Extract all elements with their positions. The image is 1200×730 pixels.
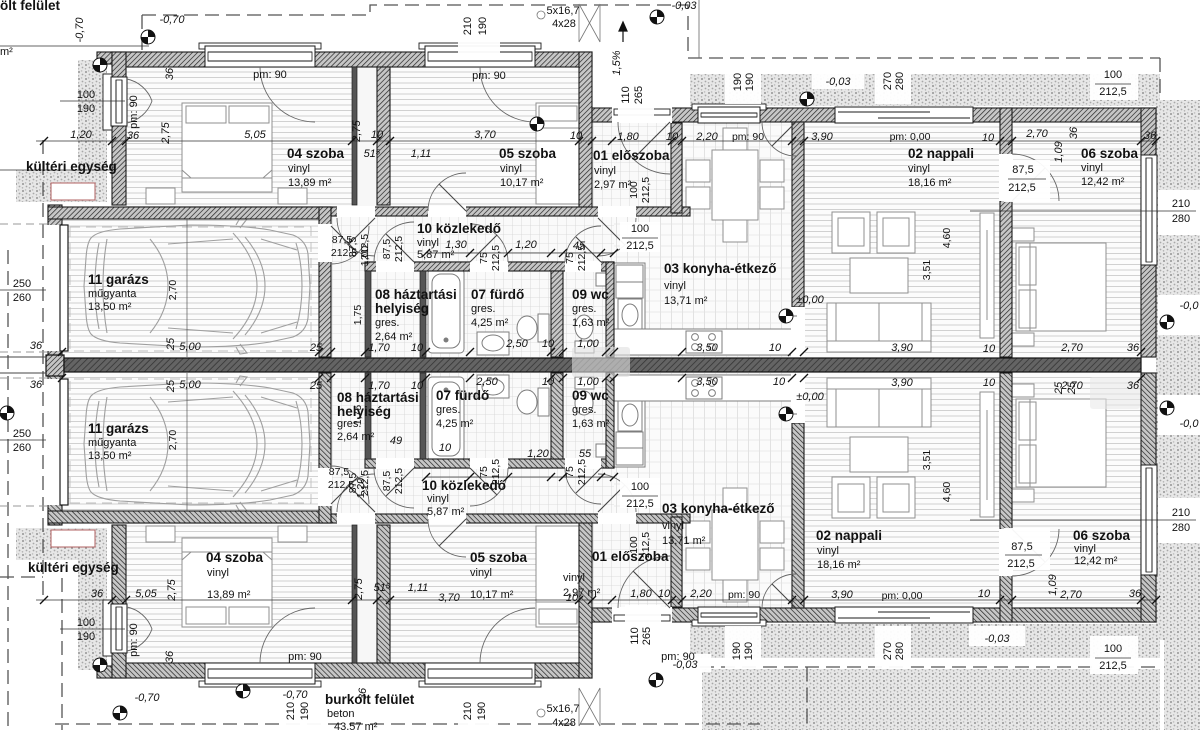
ticks near band lower <box>58 374 1145 382</box>
room 06 floor <box>1012 122 1141 357</box>
svg-text:190: 190 <box>299 702 311 720</box>
svg-text:pm: 90: pm: 90 <box>253 69 287 81</box>
wall right outer wall <box>1141 108 1156 357</box>
slope arrow 1.5% <box>619 22 627 42</box>
svg-text:49: 49 <box>390 435 402 447</box>
svg-text:4x28: 4x28 <box>552 18 576 30</box>
svg-text:2,70: 2,70 <box>167 280 179 301</box>
svg-text:212,5: 212,5 <box>393 468 405 494</box>
svg-text:190: 190 <box>731 642 743 660</box>
door dining terrace door <box>762 122 796 156</box>
room 05 floor <box>390 67 579 207</box>
svg-text:-0,70: -0,70 <box>282 689 308 701</box>
svg-text:pm: 90: pm: 90 <box>128 623 140 657</box>
svg-text:2,20: 2,20 <box>689 588 712 600</box>
svg-text:36: 36 <box>1127 342 1140 354</box>
svg-text:pm: 90: pm: 90 <box>128 95 140 129</box>
svg-text:212,5: 212,5 <box>328 479 354 491</box>
svg-text:212,5: 212,5 <box>393 236 405 262</box>
bed room 06 <box>1004 228 1106 346</box>
svg-text:3,90: 3,90 <box>811 131 833 143</box>
svg-text:10: 10 <box>542 376 555 388</box>
window room 04 side window <box>111 77 127 126</box>
wall wall 07-09 <box>551 271 563 357</box>
kitchen counters <box>614 263 792 355</box>
svg-text:13,89 m²: 13,89 m² <box>207 589 251 601</box>
svg-text:75: 75 <box>478 466 490 478</box>
svg-text:1,75: 1,75 <box>352 405 364 426</box>
svg-text:10: 10 <box>666 131 679 143</box>
svg-text:190: 190 <box>77 103 95 115</box>
svg-text:100: 100 <box>628 536 640 554</box>
svg-text:210: 210 <box>285 702 297 720</box>
ticks near band upper <box>58 348 1145 356</box>
svg-text:1,20: 1,20 <box>355 478 367 499</box>
wall bath block top wall <box>365 262 614 271</box>
svg-text:25: 25 <box>165 379 177 393</box>
svg-text:190: 190 <box>744 73 756 91</box>
svg-text:1,80: 1,80 <box>630 588 652 600</box>
svg-text:13,50 m²: 13,50 m² <box>88 450 132 462</box>
partition wall 08-07 <box>420 271 426 357</box>
svg-text:36: 36 <box>1129 588 1142 600</box>
svg-text:25: 25 <box>165 337 177 351</box>
svg-text:10: 10 <box>439 442 452 454</box>
svg-text:3,90: 3,90 <box>891 342 913 354</box>
svg-text:110: 110 <box>620 86 632 104</box>
opening door 01-corridor <box>598 206 636 217</box>
svg-text:vinyl: vinyl <box>417 237 439 249</box>
svg-text:25: 25 <box>309 380 323 392</box>
svg-text:vinyl: vinyl <box>1074 543 1096 555</box>
svg-text:helyiség: helyiség <box>375 301 429 316</box>
corridor 10 floor <box>331 216 614 262</box>
party wall band <box>46 355 64 376</box>
label chips <box>1004 160 1050 202</box>
door door 08 <box>374 222 414 262</box>
door door 06 <box>1012 154 1059 201</box>
svg-text:vinyl: vinyl <box>288 163 310 175</box>
svg-text:1,09: 1,09 <box>1053 141 1065 162</box>
svg-text:10: 10 <box>773 376 786 388</box>
svg-text:13,89 m²: 13,89 m² <box>288 177 332 189</box>
svg-text:5,00: 5,00 <box>179 341 201 353</box>
svg-text:1,5%: 1,5% <box>611 50 623 75</box>
svg-text:02 nappali: 02 nappali <box>816 528 882 543</box>
svg-text:3,50: 3,50 <box>696 376 718 388</box>
svg-text:55: 55 <box>579 448 592 460</box>
svg-text:190: 190 <box>477 17 489 35</box>
door door 07 <box>470 224 508 262</box>
svg-text:1,00: 1,00 <box>577 338 599 350</box>
right fraction lines <box>970 210 1196 212</box>
watermark blob <box>572 347 630 377</box>
svg-text:07 fürdő: 07 fürdő <box>436 388 489 403</box>
dimension line upper <box>36 140 1156 142</box>
svg-text:műgyanta: műgyanta <box>88 437 137 449</box>
window room 05 window <box>419 43 541 67</box>
svg-text:13,71 m²: 13,71 m² <box>664 295 708 307</box>
wall wall 02-06 <box>1000 108 1012 357</box>
door door 05 <box>428 173 466 211</box>
garage floor <box>62 219 319 357</box>
svg-text:43,57 m²: 43,57 m² <box>334 721 378 730</box>
svg-text:18,16 m²: 18,16 m² <box>817 559 861 571</box>
svg-text:2,70: 2,70 <box>1060 342 1083 354</box>
svg-text:pm: 0,00: pm: 0,00 <box>882 590 923 602</box>
opening 03-02 passage <box>791 307 805 357</box>
room 07 floor <box>426 271 551 357</box>
svg-text:5,05: 5,05 <box>135 588 157 600</box>
door window 05 tilt arc <box>480 67 535 122</box>
dining table set <box>686 128 784 242</box>
svg-text:13,50 m²: 13,50 m² <box>88 301 132 313</box>
svg-text:210: 210 <box>1172 198 1190 210</box>
sofa set living room <box>827 212 994 352</box>
svg-text:2,50: 2,50 <box>475 376 498 388</box>
svg-text:212,5: 212,5 <box>490 459 502 485</box>
window room 04 window <box>199 43 321 67</box>
kitchen 03 floor <box>614 122 792 357</box>
svg-text:gres.: gres. <box>572 404 596 416</box>
svg-text:87,5: 87,5 <box>329 466 350 478</box>
svg-text:10: 10 <box>411 342 424 354</box>
svg-text:09 wc: 09 wc <box>572 388 609 403</box>
wall garage top wall <box>48 207 331 219</box>
svg-text:45: 45 <box>573 240 586 252</box>
svg-text:kültéri egység: kültéri egység <box>28 560 119 575</box>
svg-text:4,25 m²: 4,25 m² <box>436 418 474 430</box>
svg-text:10: 10 <box>978 588 991 600</box>
washbasin 07 <box>477 332 509 355</box>
svg-text:212,5: 212,5 <box>331 247 357 259</box>
wall garage right wall <box>319 207 331 357</box>
svg-text:36: 36 <box>91 588 104 600</box>
svg-text:212,5: 212,5 <box>1099 86 1127 98</box>
svg-text:87,5: 87,5 <box>381 239 393 260</box>
svg-text:10,17 m²: 10,17 m² <box>470 589 514 601</box>
svg-text:2,75: 2,75 <box>353 577 365 600</box>
svg-text:gres.: gres. <box>436 404 460 416</box>
svg-text:05 szoba: 05 szoba <box>499 146 557 161</box>
svg-text:pm: 90: pm: 90 <box>728 589 760 601</box>
svg-text:100: 100 <box>631 223 649 235</box>
svg-text:1,30: 1,30 <box>445 239 467 251</box>
svg-text:4,60: 4,60 <box>941 482 953 503</box>
driveway dashes <box>0 223 48 225</box>
partition room 08 left wall <box>365 271 371 357</box>
opening door 06 <box>999 154 1013 201</box>
svg-text:10: 10 <box>658 588 671 600</box>
svg-text:3,51: 3,51 <box>921 450 933 471</box>
car in garage <box>84 218 310 354</box>
svg-text:190: 190 <box>732 73 744 91</box>
wall niche wall to room 05 <box>377 67 390 205</box>
svg-text:vinyl: vinyl <box>908 163 930 175</box>
svg-text:gres.: gres. <box>572 303 596 315</box>
svg-text:5x16,7: 5x16,7 <box>546 5 579 17</box>
svg-text:36: 36 <box>30 379 43 391</box>
side window swing wedge <box>127 79 152 123</box>
wall bedroom block corridor wall <box>126 207 690 216</box>
svg-text:1,00: 1,00 <box>577 376 599 388</box>
svg-text:vinyl: vinyl <box>662 520 684 532</box>
svg-text:01 előszoba: 01 előszoba <box>593 148 670 163</box>
room 01 floor <box>592 123 671 213</box>
wall wall 03-02 <box>792 122 804 307</box>
svg-text:36: 36 <box>164 650 176 663</box>
toilet 07 <box>517 314 549 342</box>
door door 04 <box>337 218 375 256</box>
svg-text:260: 260 <box>13 442 31 454</box>
svg-text:75: 75 <box>564 466 576 478</box>
svg-text:5x16,7: 5x16,7 <box>546 703 579 715</box>
svg-text:3,50: 3,50 <box>696 342 718 354</box>
svg-text:08 háztartási: 08 háztartási <box>337 390 419 405</box>
svg-text:10: 10 <box>769 342 782 354</box>
svg-text:190: 190 <box>476 702 488 720</box>
svg-text:4,25 m²: 4,25 m² <box>471 317 509 329</box>
svg-text:04 szoba: 04 szoba <box>287 146 345 161</box>
svg-text:10: 10 <box>983 343 996 355</box>
survey markers <box>141 30 155 44</box>
room 04 floor <box>126 67 357 207</box>
svg-text:212,5: 212,5 <box>640 177 652 203</box>
svg-text:-0,70: -0,70 <box>134 692 160 704</box>
svg-text:helyiség: helyiség <box>337 404 391 419</box>
window room 06 window <box>1141 155 1157 265</box>
svg-text:2,70: 2,70 <box>1025 128 1048 140</box>
svg-text:36: 36 <box>1068 126 1080 139</box>
svg-text:2,75: 2,75 <box>351 119 363 142</box>
svg-text:1,20: 1,20 <box>70 129 92 141</box>
svg-text:-0,70: -0,70 <box>74 17 86 43</box>
gravel bottom right corner <box>702 669 1160 730</box>
svg-text:1,20: 1,20 <box>515 239 537 251</box>
bed room 05 <box>536 103 580 204</box>
white boxes over right gravel for dims <box>1158 190 1200 235</box>
svg-text:280: 280 <box>894 642 906 660</box>
svg-text:04 szoba: 04 szoba <box>206 550 264 565</box>
svg-text:36: 36 <box>30 340 43 352</box>
toilet 09 <box>575 315 594 353</box>
wall top facade bedrooms <box>112 52 592 67</box>
svg-text:05 szoba: 05 szoba <box>470 550 528 565</box>
room 09 floor <box>563 271 606 357</box>
svg-text:±0,00: ±0,00 <box>796 294 824 306</box>
svg-text:212,5: 212,5 <box>490 245 502 271</box>
outdoor gravel strip left upper <box>78 60 107 170</box>
svg-text:4x28: 4x28 <box>552 717 576 729</box>
svg-text:m²: m² <box>0 46 13 58</box>
svg-text:18,16 m²: 18,16 m² <box>908 177 952 189</box>
svg-text:02 nappali: 02 nappali <box>908 146 974 161</box>
living 02 floor <box>804 122 1000 357</box>
svg-text:-0,0: -0,0 <box>1180 418 1200 430</box>
svg-text:vinyl: vinyl <box>470 567 492 579</box>
garage dim cross <box>186 219 188 357</box>
garage sectional door <box>60 225 68 351</box>
svg-text:1,00: 1,00 <box>359 246 371 267</box>
svg-text:10: 10 <box>566 592 579 604</box>
svg-text:-0,03: -0,03 <box>984 633 1010 645</box>
svg-text:3,90: 3,90 <box>891 377 913 389</box>
svg-text:212,5: 212,5 <box>576 459 588 485</box>
svg-text:burkolt felület: burkolt felület <box>325 692 415 707</box>
svg-text:87,5: 87,5 <box>1011 541 1032 553</box>
leader thin lines <box>0 169 149 171</box>
svg-text:pm: 0,00: pm: 0,00 <box>890 131 931 143</box>
svg-text:212,5: 212,5 <box>1007 558 1035 570</box>
niche floor <box>357 67 377 207</box>
door entrance door <box>618 122 670 174</box>
svg-text:12,42 m²: 12,42 m² <box>1081 176 1125 188</box>
terrace gravel band top right <box>690 74 1160 106</box>
svg-text:pm: 90: pm: 90 <box>732 131 764 143</box>
svg-text:190: 190 <box>77 631 95 643</box>
svg-text:1,11: 1,11 <box>411 148 432 160</box>
svg-text:100: 100 <box>77 89 95 101</box>
svg-text:75: 75 <box>478 252 490 264</box>
svg-text:gres.: gres. <box>471 303 495 315</box>
svg-text:36: 36 <box>127 130 140 142</box>
svg-text:270: 270 <box>882 72 894 90</box>
door garage door to corridor <box>331 226 369 264</box>
opening door 05 <box>428 206 466 217</box>
svg-text:36: 36 <box>357 687 369 700</box>
svg-text:1,20: 1,20 <box>527 448 549 460</box>
door door 01 <box>598 218 636 256</box>
wall top facade right block <box>592 108 1156 122</box>
svg-text:-0,0: -0,0 <box>1180 300 1200 312</box>
svg-text:212,5: 212,5 <box>640 532 652 558</box>
partition room 04 niche wall <box>352 67 357 205</box>
svg-text:260: 260 <box>13 292 31 304</box>
svg-text:110: 110 <box>629 627 641 645</box>
svg-text:kültéri egység: kültéri egység <box>26 159 117 174</box>
svg-text:51⁵: 51⁵ <box>364 148 381 160</box>
svg-text:műgyanta: műgyanta <box>88 288 137 300</box>
svg-text:5,05: 5,05 <box>244 129 266 141</box>
svg-text:gres.: gres. <box>375 317 399 329</box>
opening entrance <box>612 107 672 123</box>
svg-text:3,70: 3,70 <box>438 592 460 604</box>
svg-text:03 konyha-étkező: 03 konyha-étkező <box>662 501 775 516</box>
band cap leader lines <box>0 356 46 358</box>
svg-text:11 garázs: 11 garázs <box>88 421 149 436</box>
svg-text:25: 25 <box>1066 381 1078 395</box>
svg-text:10: 10 <box>570 130 583 142</box>
svg-text:08 háztartási: 08 háztartási <box>375 287 457 302</box>
svg-text:±0,00: ±0,00 <box>796 391 824 403</box>
svg-text:212,5: 212,5 <box>626 240 654 252</box>
svg-text:100: 100 <box>628 181 640 199</box>
bath dim line lower <box>426 476 614 478</box>
svg-text:2,70: 2,70 <box>167 430 179 451</box>
svg-text:4,60: 4,60 <box>941 228 953 249</box>
svg-text:212,5: 212,5 <box>626 498 654 510</box>
opening garage door side <box>47 225 63 351</box>
svg-text:2,50: 2,50 <box>505 338 528 350</box>
svg-text:2,97 m²: 2,97 m² <box>594 179 632 191</box>
svg-text:vinyl: vinyl <box>563 572 585 584</box>
svg-text:212,5: 212,5 <box>1008 182 1036 194</box>
svg-text:11 garázs: 11 garázs <box>88 272 149 287</box>
svg-text:87,5: 87,5 <box>1012 164 1033 176</box>
wall left outer wall bedroom block <box>112 52 126 205</box>
wall top facade end cap <box>97 52 112 64</box>
svg-text:212,5: 212,5 <box>1099 660 1127 672</box>
svg-text:10: 10 <box>982 132 995 144</box>
svg-text:280: 280 <box>1172 522 1190 534</box>
door window 04 tilt arc <box>260 67 315 122</box>
svg-text:-0,70: -0,70 <box>159 14 185 26</box>
svg-text:100: 100 <box>77 617 95 629</box>
svg-text:-0,03: -0,03 <box>825 76 851 88</box>
svg-text:13,71 m²: 13,71 m² <box>662 535 706 547</box>
svg-text:1,09: 1,09 <box>1047 574 1059 595</box>
svg-text:2,75: 2,75 <box>166 578 178 601</box>
svg-text:270: 270 <box>882 642 894 660</box>
svg-text:36: 36 <box>164 67 176 80</box>
terrace gravel band bottom right <box>690 624 1160 658</box>
svg-text:vinyl: vinyl <box>817 545 839 557</box>
opening bath doors in top wall <box>376 261 414 272</box>
room 08 floor <box>371 271 420 357</box>
svg-text:vinyl: vinyl <box>664 280 686 292</box>
terrace sliding door <box>835 107 973 123</box>
svg-text:vinyl: vinyl <box>1081 162 1103 174</box>
wall wall between 05 and 01 <box>579 52 592 215</box>
svg-text:210: 210 <box>1172 507 1190 519</box>
svg-text:210: 210 <box>462 17 474 35</box>
svg-text:265: 265 <box>633 86 645 104</box>
svg-text:5,00: 5,00 <box>179 379 201 391</box>
bed room 04 <box>146 103 307 204</box>
svg-text:100: 100 <box>1104 643 1122 655</box>
svg-text:2,70: 2,70 <box>1059 589 1082 601</box>
svg-text:03 konyha-étkező: 03 konyha-étkező <box>664 261 777 276</box>
svg-text:vinyl: vinyl <box>207 567 229 579</box>
svg-text:2,64 m²: 2,64 m² <box>337 431 375 443</box>
svg-text:1,11: 1,11 <box>408 582 429 594</box>
svg-text:190: 190 <box>743 642 755 660</box>
svg-text:1,63 m²: 1,63 m² <box>572 418 610 430</box>
svg-text:100: 100 <box>631 481 649 493</box>
svg-text:250: 250 <box>13 428 31 440</box>
svg-text:pm: 90: pm: 90 <box>472 70 506 82</box>
svg-text:12,42 m²: 12,42 m² <box>1074 555 1118 567</box>
door door 09 <box>565 226 601 262</box>
wall garage left wall <box>48 205 62 357</box>
svg-text:75: 75 <box>564 252 576 264</box>
svg-text:210: 210 <box>462 702 474 720</box>
svg-text:beton: beton <box>327 708 355 720</box>
svg-text:1,70: 1,70 <box>368 380 390 392</box>
cooktop <box>686 331 722 353</box>
svg-text:1,75: 1,75 <box>352 305 364 326</box>
svg-text:ölt felület: ölt felület <box>0 0 61 13</box>
svg-text:1,70: 1,70 <box>368 342 390 354</box>
svg-text:280: 280 <box>894 72 906 90</box>
left small dim lines <box>0 289 46 291</box>
svg-text:250: 250 <box>13 278 31 290</box>
svg-text:36: 36 <box>1127 380 1140 392</box>
svg-text:25: 25 <box>309 342 323 354</box>
svg-text:2,75: 2,75 <box>160 121 172 144</box>
property boundary dashed lines <box>142 5 1160 58</box>
svg-text:10,17 m²: 10,17 m² <box>500 177 544 189</box>
